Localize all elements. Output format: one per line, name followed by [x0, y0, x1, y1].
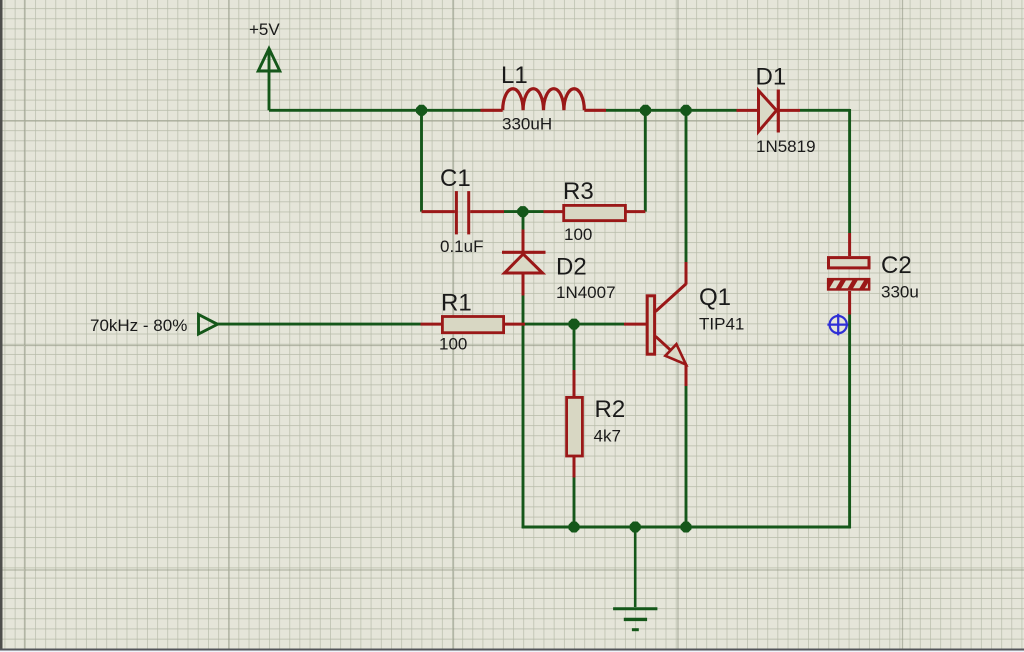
resistor R2 4k7: [567, 370, 583, 478]
svg-text:0.1uF: 0.1uF: [440, 237, 483, 256]
node junction at 635,527: [630, 522, 641, 533]
sheet bottom edge: [0, 649, 1024, 651]
svg-text:TIP41: TIP41: [699, 315, 744, 334]
svg-text:C2: C2: [881, 252, 912, 279]
wire R3 right vertical: [644, 110, 647, 211]
wire ground rail: [522, 526, 851, 529]
node junction at 421,110: [416, 105, 427, 116]
svg-text:330u: 330u: [881, 283, 919, 302]
svg-text:D2: D2: [556, 254, 587, 281]
wire R2 top: [573, 324, 576, 370]
wire input to R1: [218, 323, 421, 326]
diode D2 1N4007: [502, 230, 546, 296]
node junction at 686,110: [681, 105, 692, 116]
svg-text:70kHz - 80%: 70kHz - 80%: [90, 316, 187, 335]
input terminal 70kHz: [199, 315, 218, 335]
svg-text:100: 100: [439, 335, 467, 354]
node junction at 645,110: [640, 105, 651, 116]
sheet left edge: [0, 0, 3, 652]
transistor Q1 TIP41: [624, 262, 686, 386]
node junction at 522,211: [517, 206, 528, 217]
node junction at 574,324: [569, 319, 580, 330]
wire Q1 emitter to rail: [685, 386, 688, 528]
svg-text:1N5819: 1N5819: [756, 137, 816, 156]
svg-text:330uH: 330uH: [502, 115, 552, 134]
wire right drop to C2: [848, 109, 851, 233]
svg-text:1N4007: 1N4007: [556, 283, 616, 302]
capacitor C2 330u: [827, 233, 876, 315]
wire Q1 collector vertical: [685, 110, 688, 262]
svg-text:D1: D1: [756, 63, 787, 90]
svg-text:R3: R3: [563, 178, 594, 205]
wire drop to C1: [420, 110, 423, 211]
resistor R1 100: [421, 317, 526, 333]
inductor L1: [481, 89, 607, 111]
svg-text:R2: R2: [595, 396, 626, 423]
svg-text:L1: L1: [501, 62, 528, 89]
svg-text:4k7: 4k7: [594, 427, 621, 446]
wire C2 to rail: [848, 315, 851, 529]
power terminal +5V arrow: [258, 48, 280, 110]
wire R1 to Q1 base: [525, 323, 624, 326]
wire R2 bottom to rail: [573, 478, 576, 529]
wire D2 cathode stub: [522, 212, 525, 230]
node junction at 574,527: [569, 522, 580, 533]
wire top rail left: [269, 109, 481, 112]
node junction at 686,527: [681, 522, 692, 533]
wire top rail right: [800, 109, 850, 112]
svg-text:R1: R1: [441, 290, 472, 317]
marker origin anchor (blue crosshair): [827, 314, 849, 336]
capacitor C1 0.1uF: [422, 191, 505, 234]
resistor R3 100: [544, 205, 646, 220]
wire D2 anode to ground rail: [522, 296, 525, 529]
svg-text:C1: C1: [440, 165, 471, 192]
diode D1 1N5819: [737, 90, 801, 133]
wire C1 to R3: [504, 210, 544, 213]
svg-text:+5V: +5V: [249, 20, 280, 39]
ground symbol: [613, 527, 657, 630]
wire top rail mid: [606, 109, 737, 112]
svg-text:100: 100: [564, 225, 592, 244]
svg-text:Q1: Q1: [699, 284, 731, 311]
